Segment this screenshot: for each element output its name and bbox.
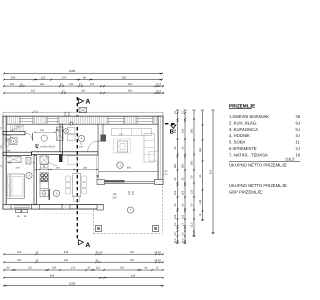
svg-text:12,5: 12,5 <box>181 238 184 244</box>
svg-text:4. HODNIK: 4. HODNIK <box>229 133 250 138</box>
svg-text:UKUPNO NETTO PRIZEMLJE:: UKUPNO NETTO PRIZEMLJE: <box>229 183 288 188</box>
svg-text:235: 235 <box>10 83 15 86</box>
svg-text:1.DNEVNI BORAVAK: 1.DNEVNI BORAVAK <box>229 114 269 119</box>
svg-text:2,65: 2,65 <box>296 146 301 151</box>
svg-text:390: 390 <box>130 251 135 254</box>
svg-text:450: 450 <box>119 133 124 136</box>
svg-text:280: 280 <box>190 128 193 133</box>
svg-text:283: 283 <box>83 166 88 169</box>
svg-text:9,80: 9,80 <box>296 120 301 125</box>
svg-text:458: 458 <box>64 251 69 254</box>
svg-text:318: 318 <box>17 251 22 254</box>
svg-text:123: 123 <box>174 190 177 195</box>
svg-text:220: 220 <box>112 197 117 200</box>
svg-text:180: 180 <box>56 166 61 169</box>
svg-text:140: 140 <box>40 129 45 132</box>
svg-text:360: 360 <box>181 163 184 168</box>
svg-text:390: 390 <box>130 259 135 262</box>
svg-text:5. SOBA: 5. SOBA <box>229 140 245 145</box>
svg-text:200: 200 <box>11 76 16 79</box>
svg-text:620: 620 <box>31 90 36 93</box>
svg-text:270: 270 <box>71 267 76 270</box>
svg-text:220: 220 <box>16 166 21 169</box>
svg-text:450: 450 <box>127 167 132 170</box>
svg-text:16,20: 16,20 <box>296 152 301 157</box>
svg-text:220: 220 <box>132 190 135 195</box>
svg-text:(16,2: (16,2 <box>285 156 295 161</box>
svg-text:11,90: 11,90 <box>296 140 301 145</box>
svg-text:26,35: 26,35 <box>296 114 301 119</box>
svg-text:320: 320 <box>8 161 13 164</box>
svg-text:3. KUPAONICA: 3. KUPAONICA <box>229 127 258 132</box>
svg-text:210: 210 <box>79 146 84 149</box>
svg-text:330: 330 <box>17 259 22 262</box>
svg-text:3,95: 3,95 <box>296 133 301 138</box>
svg-text:360: 360 <box>190 160 193 165</box>
svg-text:25,10: 25,10 <box>156 90 162 93</box>
svg-text:110: 110 <box>96 267 101 270</box>
svg-text:400: 400 <box>128 90 133 93</box>
svg-text:UKUPNO NETTO PRIZEMLJE:: UKUPNO NETTO PRIZEMLJE: <box>229 162 288 167</box>
svg-text:870: 870 <box>209 169 212 174</box>
svg-text:220: 220 <box>90 83 95 86</box>
svg-text:123: 123 <box>174 214 177 219</box>
svg-text:12,5: 12,5 <box>174 238 177 244</box>
svg-text:848: 848 <box>50 274 55 277</box>
svg-text:430: 430 <box>64 259 69 262</box>
svg-text:240: 240 <box>181 128 184 133</box>
svg-text:945: 945 <box>199 147 202 152</box>
svg-text:120: 120 <box>41 76 46 79</box>
svg-text:230: 230 <box>69 83 74 86</box>
svg-text:25,10: 25,10 <box>154 251 161 254</box>
svg-text:GBP PRIZEMLJE:: GBP PRIZEMLJE: <box>229 189 263 194</box>
svg-text:7. NATKR. .TERASA: 7. NATKR. .TERASA <box>229 152 268 157</box>
svg-text:240: 240 <box>52 267 57 270</box>
svg-text:428: 428 <box>131 274 136 277</box>
svg-text:±0.00=+52.00: ±0.00=+52.00 <box>40 145 56 148</box>
svg-text:15,5: 15,5 <box>190 222 193 228</box>
svg-text:180: 180 <box>55 129 60 132</box>
svg-text:6.SPREMISTE: 6.SPREMISTE <box>229 146 257 151</box>
svg-text:123: 123 <box>181 190 184 195</box>
svg-text:5,60: 5,60 <box>296 127 301 132</box>
svg-text:230: 230 <box>120 267 125 270</box>
svg-text:1285: 1285 <box>69 281 76 285</box>
svg-text:320: 320 <box>122 76 127 79</box>
svg-text:+0.50: +0.50 <box>14 125 20 128</box>
svg-text:123: 123 <box>190 189 193 194</box>
svg-text:B: B <box>170 128 175 135</box>
svg-text:313: 313 <box>40 83 45 86</box>
svg-text:123: 123 <box>181 214 184 219</box>
svg-text:270: 270 <box>62 76 67 79</box>
svg-text:120: 120 <box>28 267 33 270</box>
svg-text:360: 360 <box>174 163 177 168</box>
svg-text:PRIZEMLJE: PRIZEMLJE <box>229 103 255 108</box>
svg-text:400: 400 <box>128 83 133 86</box>
svg-text:2. KUH, BLAG.: 2. KUH, BLAG. <box>229 120 257 125</box>
svg-text:A: A <box>85 242 90 249</box>
svg-text:240: 240 <box>174 128 177 133</box>
svg-text:230: 230 <box>81 90 86 93</box>
svg-text:A: A <box>85 98 90 105</box>
svg-text:146: 146 <box>199 199 202 204</box>
svg-text:1285: 1285 <box>69 69 76 73</box>
svg-text:25,10: 25,10 <box>156 83 162 86</box>
svg-text:25,10: 25,10 <box>154 259 161 262</box>
svg-text:90: 90 <box>83 76 86 79</box>
